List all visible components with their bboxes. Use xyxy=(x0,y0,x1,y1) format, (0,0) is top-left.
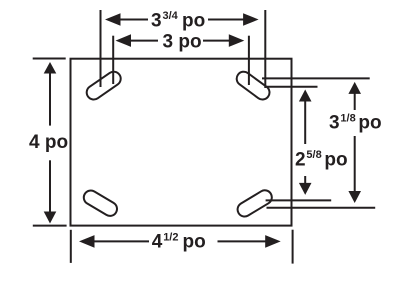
dim 3-3/4 po: left shaft xyxy=(120,19,149,21)
dim 4 po: top extension line xyxy=(33,58,66,60)
dim 3-3/4 po: left extension line xyxy=(100,10,102,87)
dim 3 po: left extension line xyxy=(112,36,114,84)
dim 3-1/8 po: bottom shaft xyxy=(354,136,356,192)
svg-text:1/8: 1/8 xyxy=(340,112,355,124)
plate outline xyxy=(71,59,292,226)
svg-text:3: 3 xyxy=(151,10,162,31)
dim 3-1/8 po: top shaft xyxy=(354,93,356,110)
dim 4 po: top shaft xyxy=(49,73,51,126)
svg-text:po: po xyxy=(182,10,205,31)
slot bottom-left xyxy=(81,188,119,219)
dim 4-1/2 po: right shaft xyxy=(218,240,267,242)
dim 3-1/8 po: bottom extension line xyxy=(267,207,376,209)
dim 4-1/2 po: right arrowhead xyxy=(265,235,281,248)
slot top-left xyxy=(84,69,123,102)
slot bottom-right xyxy=(235,188,274,219)
svg-text:5/8: 5/8 xyxy=(306,149,321,161)
dim 3-3/4 po: right shaft xyxy=(208,19,244,21)
svg-text:po: po xyxy=(183,232,206,253)
dim 4-1/2 po: left extension line xyxy=(70,230,72,263)
dim 3-1/8 po: top arrowhead xyxy=(348,82,361,94)
dim 2-5/8 po: bottom shaft xyxy=(304,176,306,185)
svg-text:po: po xyxy=(358,113,381,134)
svg-text:4 po: 4 po xyxy=(29,132,68,153)
svg-text:po: po xyxy=(324,149,347,170)
dim 2-5/8 po: top extension line xyxy=(267,86,318,88)
dim 4 po: bottom arrowhead xyxy=(44,212,57,224)
dim 3-3/4 po: right arrowhead xyxy=(243,13,259,26)
dim 4 po: bottom extension line xyxy=(33,225,67,227)
svg-text:3: 3 xyxy=(329,113,340,134)
dim 3-1/8 po: bottom arrowhead xyxy=(348,191,361,203)
dim 2-5/8 po: top arrowhead xyxy=(299,90,312,102)
dim 4 po: bottom shaft xyxy=(49,160,51,212)
svg-text:2: 2 xyxy=(295,149,306,170)
dim 3 po: right shaft xyxy=(203,40,230,42)
dim 4-1/2 po: left shaft xyxy=(94,240,150,242)
svg-text:3/4: 3/4 xyxy=(163,10,179,22)
svg-text:4: 4 xyxy=(152,232,163,253)
dim 3 po: left arrowhead xyxy=(116,34,132,47)
dim 2-5/8 po: bottom arrowhead xyxy=(299,183,312,195)
dim 4-1/2 po: right extension line xyxy=(292,230,294,264)
dim 3-1/8 po: top extension line xyxy=(262,77,370,79)
dim 3 po: left shaft xyxy=(130,40,158,42)
dim 3-3/4 po: left arrowhead xyxy=(105,13,121,26)
dim 4-1/2 po: left arrowhead xyxy=(79,235,95,248)
slot top-right xyxy=(234,69,272,102)
dim 3 po: right extension line xyxy=(248,36,250,85)
svg-text:1/2: 1/2 xyxy=(163,231,178,243)
dim 4 po: top arrowhead xyxy=(44,62,57,74)
svg-text:3 po: 3 po xyxy=(163,32,202,53)
dim 3 po: right arrowhead xyxy=(229,34,245,47)
dim 3-3/4 po: right extension line xyxy=(264,10,266,88)
dim 2-5/8 po: top shaft xyxy=(304,101,306,145)
dim 2-5/8 po: bottom extension line xyxy=(266,199,332,201)
